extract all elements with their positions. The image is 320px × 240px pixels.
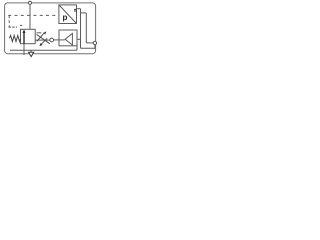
supply rail wire: [10, 49, 77, 51]
pressure sensor box: [59, 5, 77, 24]
node circle on output wire: [50, 38, 54, 42]
sensor output stub from analog mark: [77, 8, 80, 10]
adjust arrow up-right shaft: [37, 33, 45, 42]
actuator top segment: [37, 32, 42, 34]
pilot dash near valve corner: [20, 24, 22, 26]
adjust arrow up-right head: [44, 31, 47, 34]
shared vertical wire: [80, 9, 82, 49]
valve flow path line: [23, 32, 25, 44]
actuation arrow down-left head: [40, 43, 43, 46]
wire amplifier to shared vertical: [77, 38, 81, 40]
pilot dashed line vertical left: [8, 15, 10, 27]
regulator valve body: [21, 29, 36, 43]
port circle top (pilot port): [28, 1, 31, 4]
exhaust triangle: [29, 52, 34, 56]
sensor column vertical: [85, 13, 87, 43]
wire vertical from top port to valve: [29, 4, 31, 29]
actuation arrow down-left shaft: [41, 38, 47, 44]
svg-text:p: p: [63, 13, 68, 22]
wire valve output to node: [35, 39, 50, 41]
pilot dashed elbow to valve: [9, 26, 17, 28]
wire jog to sensor column: [81, 12, 87, 14]
connector amplifier to rail: [76, 46, 78, 50]
wire from right port down: [81, 45, 95, 49]
sensor analog mark: [74, 8, 77, 10]
port circle right: [93, 41, 96, 44]
spring: [9, 36, 20, 42]
sensor diagonal: [59, 5, 77, 24]
solenoid diagonal line: [37, 34, 50, 43]
port line down from valve: [23, 44, 25, 55]
exhaust stub: [30, 50, 32, 52]
wire into right port: [86, 42, 93, 44]
pilot dashed line horizontal to sensor: [8, 14, 59, 16]
amplifier box: [59, 30, 77, 46]
valve flow arrowhead: [23, 29, 26, 33]
enclosure outer rounded box: [5, 3, 96, 54]
wire node to amplifier: [54, 39, 65, 41]
amplifier triangle: [65, 33, 72, 45]
